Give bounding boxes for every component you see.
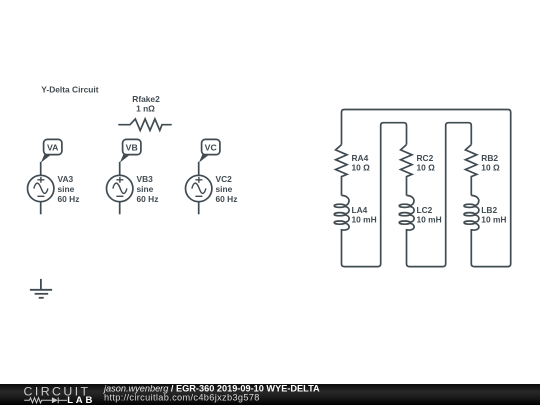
voltage source VC2 with node flag VC [186,139,238,214]
svg-text:LA4: LA4 [352,205,368,215]
svg-text:60 Hz: 60 Hz [137,194,159,204]
wire [119,202,121,215]
source circle [186,175,212,201]
minus sign [195,195,202,197]
voltage source VB3 with node flag VB [107,139,159,214]
node flag VA [44,139,62,154]
svg-text:LAB: LAB [67,395,95,405]
svg-text:10 Ω: 10 Ω [417,163,436,173]
svg-text:sine: sine [216,184,233,194]
svg-text:VA3: VA3 [58,174,74,184]
wire [198,162,200,176]
svg-text:RA4: RA4 [352,153,369,163]
voltage source VA3 with node flag VA [28,139,80,214]
svg-text:RC2: RC2 [417,153,434,163]
svg-text:10 Ω: 10 Ω [352,163,371,173]
svg-text:http://circuitlab.com/c4b6jxzb: http://circuitlab.com/c4b6jxzb3g578 [104,393,260,403]
wire bottom U1 + inner vertical + top n1 (RA4 bottom to RC2 top) [342,123,407,267]
inductor LC2 [399,195,441,230]
svg-text:10 mH: 10 mH [481,215,506,225]
inductor LA4 [334,195,376,230]
wire [198,202,200,215]
source circle [107,175,133,201]
wire bottom U2 + inner vertical + top n2 (RC2 bottom to RB2 top) [407,123,472,267]
inductor LB2 [464,195,506,230]
sine wave [34,183,48,193]
svg-text:60 Hz: 60 Hz [58,194,80,204]
wire top outer loop (branch RA4 top to right side down to RB2 bottom) [342,110,511,267]
svg-text:VC2: VC2 [216,174,233,184]
resistor RC2 [401,145,436,196]
svg-text:Y-Delta Circuit: Y-Delta Circuit [41,85,98,95]
svg-text:VB3: VB3 [137,174,154,184]
svg-text:LC2: LC2 [417,205,433,215]
svg-text:VA: VA [47,142,59,152]
node flag VC [202,139,220,154]
minus sign [37,195,44,197]
footer bar [0,384,540,405]
svg-text:10 mH: 10 mH [352,215,377,225]
wire [40,162,42,176]
node flag VB [123,139,141,154]
minus sign [116,195,123,197]
svg-text:VB: VB [126,142,138,152]
svg-text:sine: sine [137,184,154,194]
sine wave [192,183,206,193]
logo resistor-diode squiggle [24,397,67,403]
svg-text:10 Ω: 10 Ω [481,163,500,173]
sine wave [113,183,127,193]
svg-text:RB2: RB2 [481,153,498,163]
svg-text:1 nΩ: 1 nΩ [136,104,155,114]
svg-text:10 mH: 10 mH [417,215,442,225]
svg-text:VC: VC [205,142,218,152]
wire [119,162,121,176]
plus sign [116,177,123,183]
resistor RA4 [336,145,371,196]
svg-text:Rfake2: Rfake2 [132,94,160,104]
resistor RB2 [465,145,500,196]
ground [30,279,52,298]
wire [40,202,42,215]
svg-text:60 Hz: 60 Hz [216,194,238,204]
resistor Rfake2 [118,94,171,130]
svg-text:LB2: LB2 [481,205,497,215]
svg-text:sine: sine [58,184,75,194]
plus sign [195,177,202,183]
source circle [28,175,54,201]
plus sign [37,177,44,183]
